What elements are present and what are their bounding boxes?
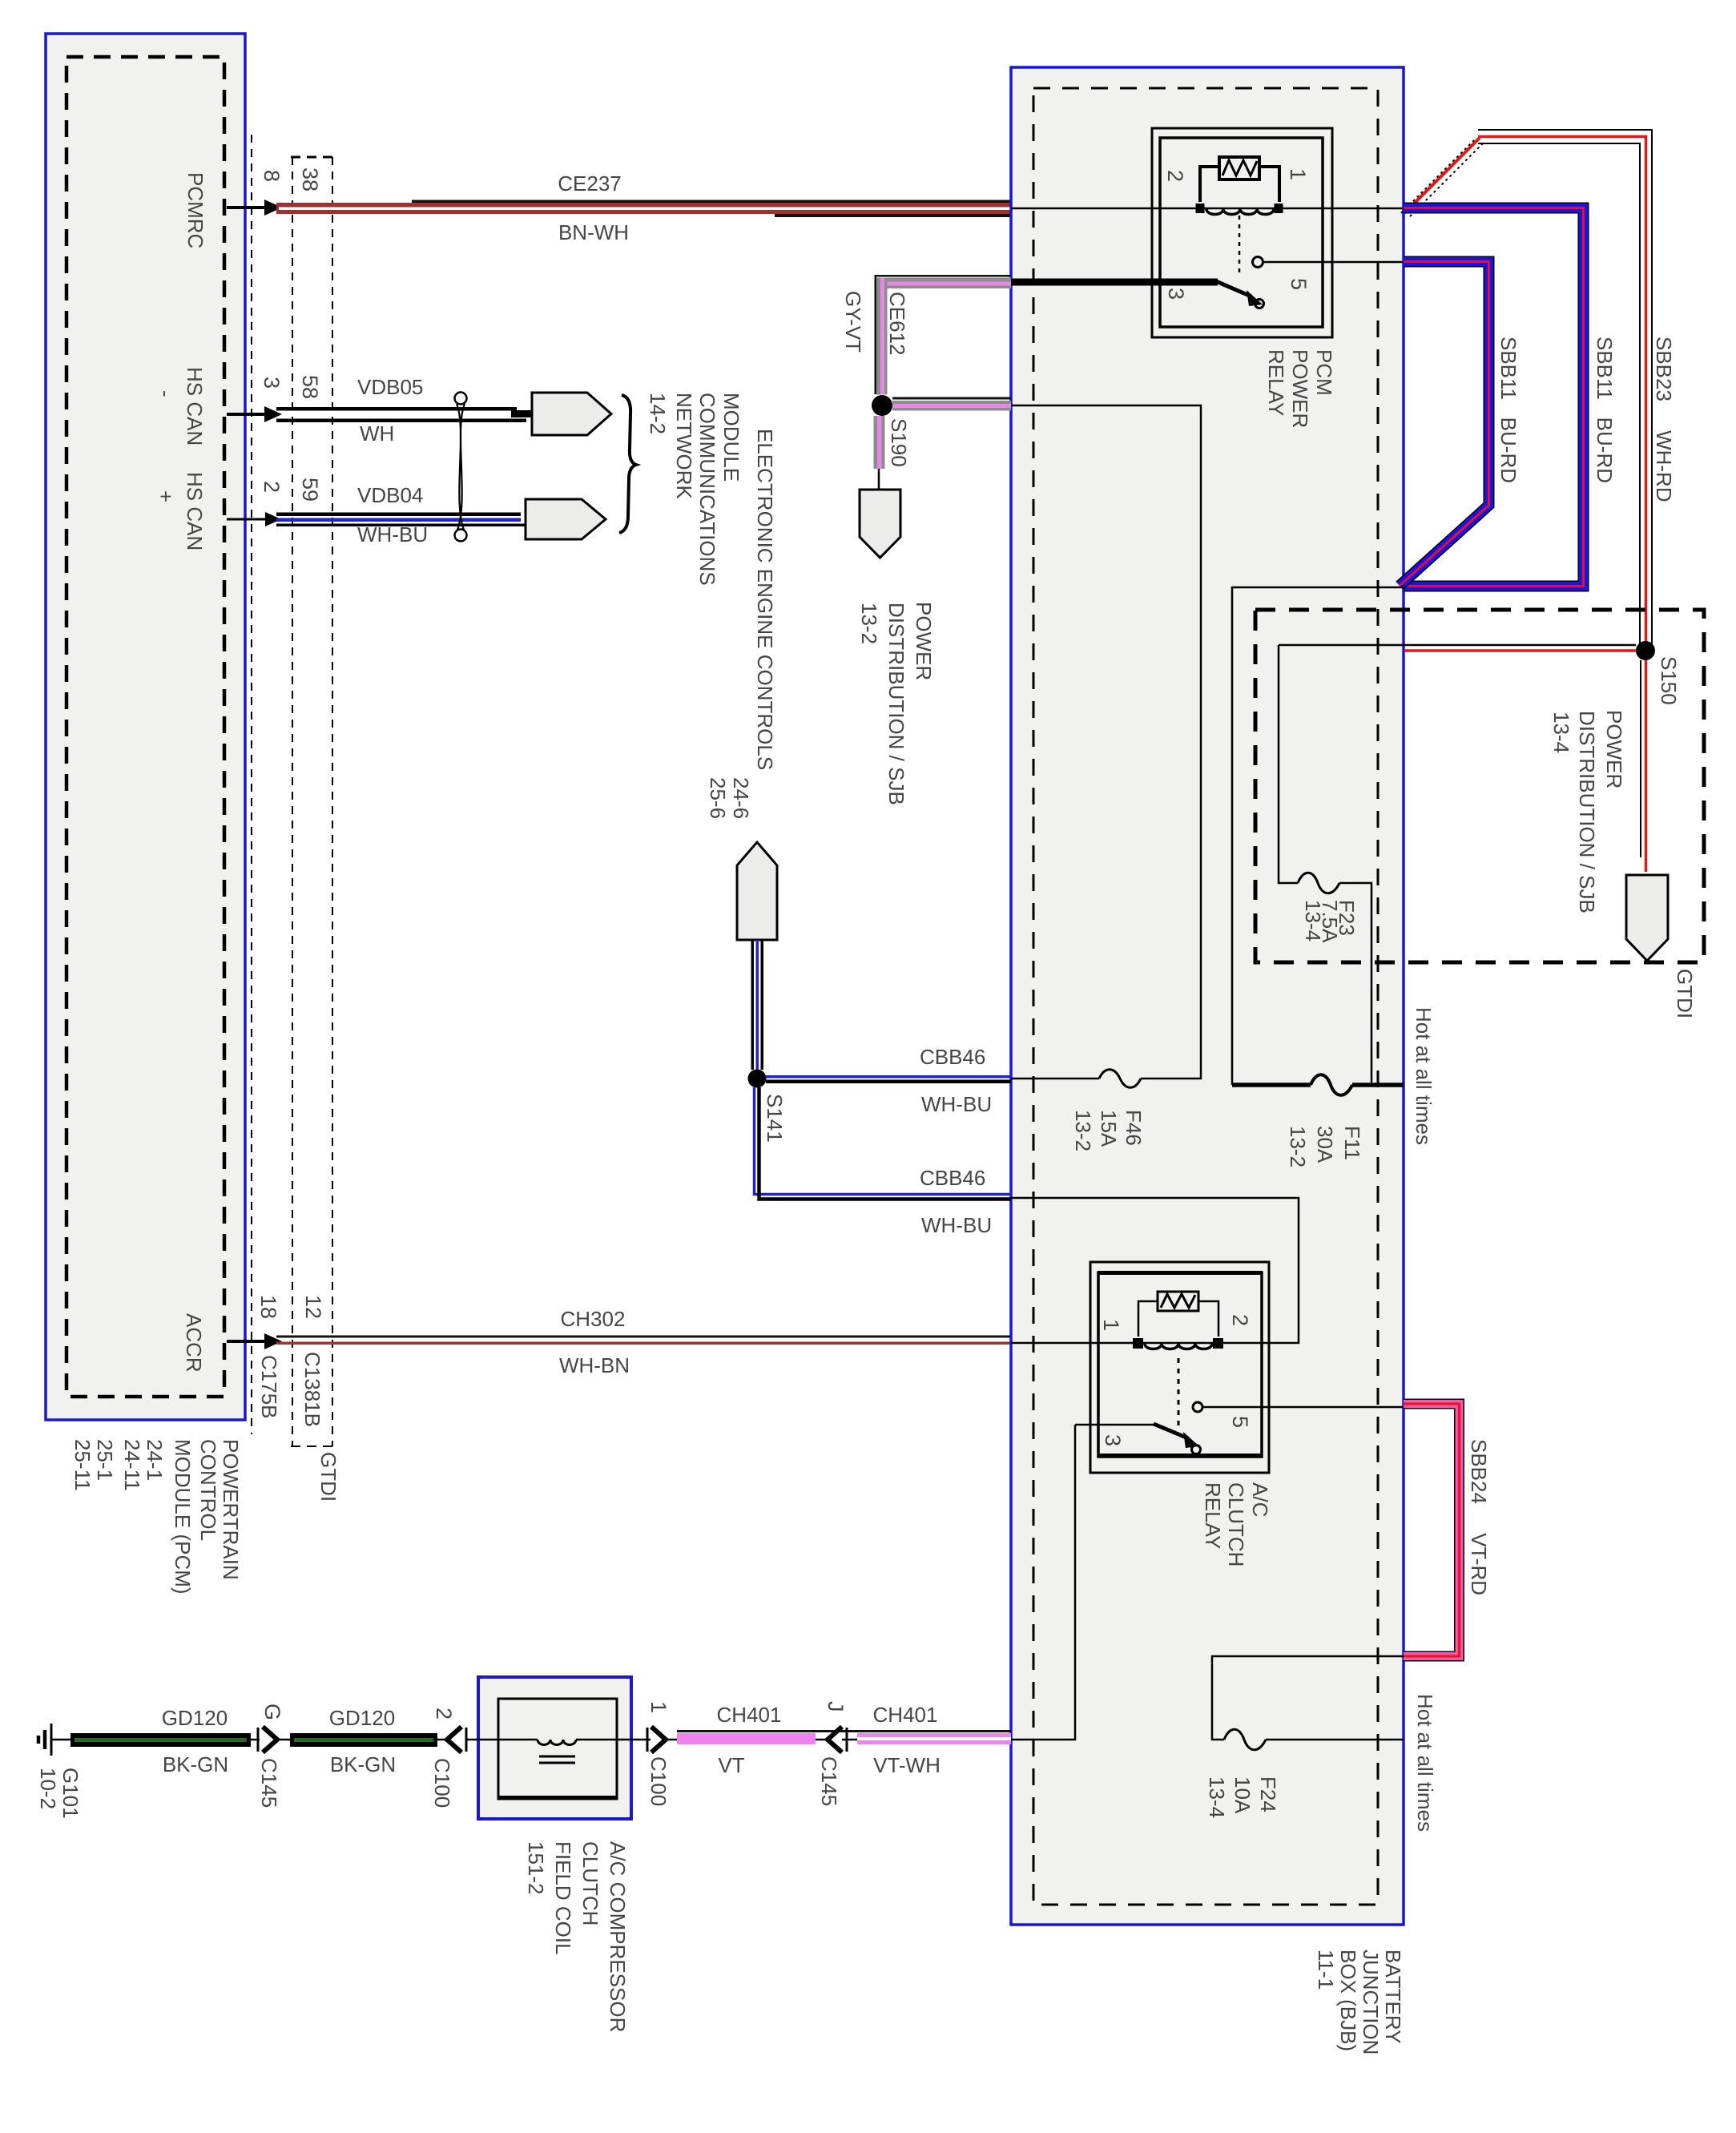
connector C1381B (GTDI) dashed box: [291, 157, 334, 1446]
svg-text:5: 5: [1287, 278, 1311, 290]
label POWER DISTRIBUTION / SJB 13-2: [857, 602, 936, 805]
wire GY-VT stub below S190: [874, 416, 885, 490]
splice node S141: [748, 1070, 767, 1088]
label A/C CLUTCH RELAY: [1201, 1482, 1272, 1566]
svg-text:VT: VT: [718, 1753, 744, 1777]
svg-text:F46: F46: [1122, 1110, 1146, 1146]
connector C100 pin 2 arrows: [447, 1727, 466, 1752]
A/C relay resistor: [1138, 1292, 1218, 1337]
wire GD120 BK-GN (ground to C145): [70, 1733, 260, 1747]
A/C relay coil: [1133, 1338, 1223, 1349]
wire SBB11 BU-RD inner loop: [1400, 262, 1489, 587]
off-page arrow power distribution 13-4: [1626, 875, 1668, 961]
wire WH-RD from S150 left into BJB to F23: [1279, 645, 1636, 1083]
wire CBB46 WH-BU (S141 down and right): [755, 1087, 1012, 1200]
wire SBB24 VT-RD loop: [1404, 1404, 1460, 1656]
svg-text:10A: 10A: [1231, 1776, 1255, 1814]
connector C145 pin G arrows: [258, 1727, 277, 1752]
svg-text:BK-GN: BK-GN: [330, 1752, 396, 1776]
svg-text:SBB24 VT-RD: SBB24 VT-RD: [1467, 1439, 1491, 1595]
GTDI dashed box: [1255, 610, 1704, 962]
fuse F23 label: [1301, 900, 1359, 943]
svg-text:VDB05: VDB05: [357, 375, 423, 399]
wire CH401 VT-WH: [842, 1733, 1011, 1744]
svg-text:S190: S190: [887, 418, 911, 467]
svg-text:POWER: POWER: [912, 602, 936, 680]
svg-text:SBB23 WH-RD: SBB23 WH-RD: [1652, 337, 1676, 502]
svg-text:NETWORK: NETWORK: [672, 393, 696, 500]
brace for module communications network: [619, 395, 636, 533]
wire inside BJB from SBB11 loops to F11: [1232, 587, 1404, 1085]
svg-text:CH401: CH401: [873, 1703, 938, 1727]
field coil symbol: [466, 1740, 650, 1763]
splice node S150: [1636, 641, 1655, 660]
A/C compressor clutch field coil box: [478, 1677, 631, 1819]
fuse F24 10A (Hot at all times): [1224, 1729, 1404, 1750]
label MODULE COMMUNICATIONS NETWORK 14-2: [646, 393, 743, 586]
splice node S190: [872, 395, 892, 416]
svg-text:13-2: 13-2: [857, 603, 881, 644]
connector C100 pin 1 arrows: [647, 1727, 666, 1752]
wire CE237 BN-WH: [276, 200, 1404, 218]
svg-text:ACCR: ACCR: [182, 1313, 206, 1373]
PCM relay resistor: [1200, 157, 1279, 202]
svg-text:S141: S141: [763, 1094, 787, 1143]
svg-text:DISTRIBUTION / SJB: DISTRIBUTION / SJB: [884, 603, 908, 805]
svg-text:WH: WH: [360, 421, 394, 446]
svg-text:8: 8: [260, 170, 284, 182]
label PCM POWER RELAY: [1264, 349, 1336, 428]
wire CH401 VT: [666, 1730, 1011, 1744]
svg-text:15A: 15A: [1097, 1110, 1121, 1147]
wire inside BJB CH302 to A/C relay coil: [1011, 1342, 1227, 1345]
off-page arrow electronic engine controls (up): [737, 842, 777, 940]
svg-text:12: 12: [301, 1295, 325, 1319]
svg-text:11-1: 11-1: [1314, 1950, 1338, 1990]
svg-text:CBB46: CBB46: [920, 1045, 985, 1069]
svg-text:CH302: CH302: [561, 1307, 626, 1331]
svg-text:58: 58: [298, 375, 322, 399]
wire SBB23 WH-RD diagonal: [1401, 138, 1484, 216]
PCM relay pin numbers: [1163, 168, 1311, 300]
svg-text:Hot at all times: Hot at all times: [1412, 1007, 1436, 1145]
svg-text:POWER: POWER: [1288, 349, 1312, 428]
svg-text:GTDI: GTDI: [1673, 969, 1697, 1018]
wire WH-RD from S150 down to arrow: [1641, 660, 1646, 872]
svg-text:151-2: 151-2: [524, 1841, 548, 1895]
svg-text:2: 2: [1228, 1314, 1252, 1326]
svg-text:2: 2: [432, 1708, 456, 1720]
label A/C COMPRESSOR CLUTCH FIELD COIL 151-2: [524, 1841, 630, 2032]
A/C CLUTCH RELAY box: [1090, 1262, 1269, 1473]
svg-text:CBB46: CBB46: [920, 1166, 985, 1190]
svg-text:14-2: 14-2: [646, 393, 670, 434]
PCM relay dashed actuator line: [1239, 216, 1241, 276]
wire SBB23 WH-RD top run and down to S150: [1478, 130, 1652, 651]
svg-text:BN-WH: BN-WH: [558, 220, 629, 244]
A/C relay dashed actuator line: [1178, 1358, 1180, 1429]
svg-text:RELAY: RELAY: [1201, 1482, 1225, 1549]
svg-text:13-4: 13-4: [1205, 1776, 1229, 1818]
svg-text:10-2: 10-2: [36, 1768, 60, 1809]
svg-text:ELECTRONIC ENGINE CONTROLS: ELECTRONIC ENGINE CONTROLS: [753, 429, 777, 770]
off-page arrow power distribution 13-2: [860, 490, 900, 558]
PCM module box (POWERTRAIN CONTROL MODULE): [46, 34, 245, 1420]
svg-text:F24: F24: [1256, 1776, 1280, 1812]
label ELECTRONIC ENGINE CONTROLS 24-6 25-6: [706, 429, 777, 819]
svg-text:CLUTCH: CLUTCH: [578, 1841, 602, 1925]
ground G101 symbol: [38, 1724, 72, 1756]
svg-text:13-2: 13-2: [1071, 1110, 1095, 1151]
svg-text:WH-BU: WH-BU: [357, 522, 428, 546]
PCM pin label HS CAN +: [154, 472, 207, 550]
PCM POWER RELAY box: [1152, 128, 1332, 337]
BJB box (BATTERY JUNCTION BOX): [1011, 67, 1404, 1925]
svg-text:G: G: [260, 1704, 284, 1720]
svg-text:CLUTCH: CLUTCH: [1224, 1482, 1248, 1566]
svg-text:C1381B: C1381B: [300, 1352, 324, 1427]
A/C relay pin numbers: [1099, 1314, 1252, 1446]
svg-text:GD120: GD120: [162, 1706, 228, 1730]
svg-text:GY-VT: GY-VT: [841, 291, 865, 353]
fuse F11 label: [1286, 1126, 1364, 1167]
off-page arrow (module communications lower): [526, 499, 606, 539]
wire A/C relay pin3 down to CH401: [1011, 1425, 1075, 1740]
svg-text:C175B: C175B: [257, 1355, 281, 1419]
svg-text:J: J: [824, 1701, 848, 1712]
svg-text:HS CAN: HS CAN: [183, 472, 207, 550]
svg-text:BOX (BJB): BOX (BJB): [1336, 1950, 1360, 2051]
svg-text:G101: G101: [58, 1768, 83, 1819]
PCM relay coil: [1196, 204, 1283, 215]
svg-text:25-11: 25-11: [70, 1439, 95, 1491]
pin 18 arrow (ACCR): [227, 1333, 282, 1349]
pin 8 arrow (PCMRC): [227, 200, 282, 216]
svg-text:3: 3: [1164, 288, 1188, 300]
svg-text:VDB04: VDB04: [357, 483, 423, 507]
wire CBB46 WH-BU (S141 to F46): [766, 1075, 1011, 1083]
fuse F11 30A line (thick, Hot at all times): [1232, 1075, 1404, 1095]
label POWER DISTRIBUTION / SJB 13-4: [1549, 710, 1626, 913]
svg-text:WH-BN: WH-BN: [559, 1353, 630, 1377]
wire CH302 WH-BN: [276, 1336, 1011, 1345]
A/C relay switch blade and pin 3 wire: [1075, 1424, 1201, 1454]
pin 3 arrow (HS CAN -): [227, 406, 282, 422]
svg-text:24-6: 24-6: [729, 777, 753, 819]
pin 2 arrow (HS CAN +): [227, 512, 281, 526]
svg-text:CH401: CH401: [717, 1703, 782, 1727]
svg-text:COMMUNICATIONS: COMMUNICATIONS: [695, 393, 719, 586]
svg-text:13-2: 13-2: [1286, 1126, 1310, 1167]
svg-text:Hot at all times: Hot at all times: [1413, 1694, 1437, 1832]
svg-text:MODULE (PCM): MODULE (PCM): [171, 1439, 195, 1595]
svg-text:GTDI: GTDI: [316, 1452, 340, 1502]
svg-text:38: 38: [298, 167, 322, 192]
svg-text:59: 59: [298, 478, 322, 502]
fuse F46 label: [1071, 1110, 1146, 1151]
PCM pin label HS CAN -: [154, 367, 207, 446]
svg-text:HS CAN: HS CAN: [183, 367, 207, 446]
POWERTRAIN CONTROL MODULE (PCM) label block with page refs: [70, 1439, 243, 1595]
svg-text:1: 1: [1286, 168, 1310, 180]
wire inside BJB: second CBB46 branch to A/C relay coil: [1011, 1198, 1299, 1343]
fuse F24 label: [1205, 1776, 1280, 1818]
twisted pair symbol: [455, 393, 467, 542]
svg-text:25-1: 25-1: [93, 1439, 117, 1481]
PCM relay pin 5 contact and wire: [1253, 257, 1404, 268]
svg-text:FIELD COIL: FIELD COIL: [551, 1841, 575, 1955]
svg-text:2: 2: [1163, 170, 1187, 182]
svg-text:RELAY: RELAY: [1264, 349, 1288, 416]
label BATTERY JUNCTION BOX (BJB) 11-1: [1314, 1950, 1405, 2054]
svg-text:C145: C145: [817, 1756, 841, 1806]
wire VDB04 WH-BU: [276, 513, 529, 527]
connector C175B dashed line: [251, 135, 252, 1434]
svg-text:30A: 30A: [1313, 1126, 1337, 1163]
wire inside BJB: F46 feed (CBB46 to fuse to GY-VT): [1011, 405, 1201, 1087]
svg-text:WH-BU: WH-BU: [921, 1213, 992, 1237]
svg-text:13-4: 13-4: [1549, 712, 1573, 753]
svg-text:C100: C100: [430, 1758, 454, 1808]
svg-text:WH-BU: WH-BU: [921, 1092, 992, 1116]
PCM relay switch blade and pin 3 wire: [1011, 281, 1264, 308]
svg-text:A/C: A/C: [1248, 1482, 1272, 1517]
svg-text:GD120: GD120: [329, 1706, 395, 1730]
svg-text:1: 1: [1099, 1319, 1123, 1331]
svg-text:2: 2: [260, 481, 284, 493]
wire GD120 BK-GN (C145 to C100): [277, 1733, 447, 1747]
wire inside BJB SBB24 to F24: [1212, 1656, 1404, 1740]
svg-text:+: +: [154, 490, 178, 502]
svg-text:JUNCTION: JUNCTION: [1359, 1950, 1383, 2054]
svg-text:5: 5: [1228, 1416, 1252, 1428]
A/C relay pin 5 contact and wire: [1193, 1402, 1404, 1412]
svg-text:3: 3: [1101, 1434, 1125, 1446]
wire CBB46 vertical (arrow to S141): [751, 940, 764, 1070]
svg-text:POWER: POWER: [1602, 710, 1626, 788]
connector C145 pin J arrows: [828, 1727, 847, 1752]
svg-text:SBB11 BU-RD: SBB11 BU-RD: [1593, 337, 1617, 483]
svg-text:S150: S150: [1657, 656, 1681, 705]
svg-text:F11: F11: [1340, 1126, 1364, 1160]
svg-text:-: -: [154, 390, 178, 397]
svg-text:SBB11 BU-RD: SBB11 BU-RD: [1496, 337, 1521, 483]
svg-text:24-1: 24-1: [143, 1439, 167, 1481]
svg-text:POWERTRAIN: POWERTRAIN: [219, 1439, 243, 1580]
wire CE612 GY-VT (relay pin3 to S190 corner): [875, 275, 1012, 395]
svg-text:CONTROL: CONTROL: [196, 1439, 220, 1541]
svg-text:MODULE: MODULE: [719, 393, 743, 482]
svg-text:PCMRC: PCMRC: [183, 172, 207, 248]
svg-text:3: 3: [260, 377, 284, 389]
svg-text:C145: C145: [257, 1758, 281, 1808]
svg-text:BK-GN: BK-GN: [163, 1752, 228, 1776]
label G101 10-2: [36, 1768, 83, 1819]
svg-text:DISTRIBUTION / SJB: DISTRIBUTION / SJB: [1575, 711, 1599, 913]
wire GY-VT from S190 into BJB: [892, 397, 1011, 411]
svg-text:A/C COMPRESSOR: A/C COMPRESSOR: [606, 1841, 630, 2032]
off-page arrow (module communications upper): [532, 393, 611, 435]
svg-text:VT-WH: VT-WH: [873, 1753, 941, 1777]
svg-text:13-4: 13-4: [1301, 900, 1325, 942]
PCM relay coil line through BJB: [1011, 208, 1404, 210]
svg-text:BATTERY: BATTERY: [1381, 1950, 1405, 2044]
wire VDB05 WH: [276, 407, 534, 422]
svg-text:25-6: 25-6: [706, 777, 730, 819]
svg-text:CE612: CE612: [885, 292, 909, 356]
svg-text:C100: C100: [646, 1756, 671, 1806]
svg-text:1: 1: [646, 1701, 671, 1713]
wire SBB11 BU-RD outer loop: [1404, 208, 1584, 587]
svg-text:PCM: PCM: [1312, 349, 1336, 396]
svg-text:CE237: CE237: [558, 171, 622, 196]
svg-text:24-11: 24-11: [120, 1439, 144, 1491]
svg-text:18: 18: [256, 1295, 280, 1319]
